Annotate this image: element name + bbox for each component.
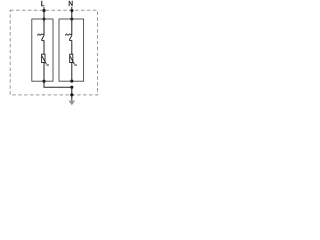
node L terminal on border (42, 9, 45, 12)
disconnector F1 lower jog (41, 39, 44, 41)
wire L lead-in (43, 7, 45, 19)
node PE terminal on border (70, 93, 73, 96)
wire PE drop (71, 87, 73, 100)
module box left (32, 19, 53, 81)
disconnector F2 squiggle (65, 34, 71, 36)
varistor RV2 foot (74, 64, 77, 66)
varistor RV2 body (70, 54, 73, 62)
varistor RV1 foot (46, 64, 49, 66)
disconnector F1 blade (42, 35, 44, 40)
terminal label N (69, 1, 73, 6)
disconnector F1 squiggle (38, 34, 44, 36)
varistor RV1 diagonal (42, 56, 47, 64)
wire N lead-in (71, 7, 73, 19)
wire PE bus (44, 86, 72, 88)
wire left branch middle (43, 40, 45, 54)
varistor RV2 diagonal (70, 56, 75, 64)
wire left stub to PE bus (43, 81, 45, 87)
ground arrow (69, 101, 76, 106)
module box right (59, 19, 84, 81)
enclosure dashed border (10, 10, 97, 95)
node L branch top (42, 17, 45, 20)
node left branch bottom (42, 80, 45, 83)
wire right branch middle (71, 40, 73, 54)
terminal label L (41, 1, 44, 7)
wire left branch upper (43, 19, 45, 35)
varistor RV1 body (42, 54, 45, 62)
wire right branch lower (71, 63, 73, 82)
node N branch top (70, 17, 73, 20)
node PE bus junction (70, 86, 73, 89)
disconnector F2 lower jog (69, 39, 72, 41)
node N terminal on border (70, 9, 73, 12)
disconnector F2 blade (69, 35, 71, 40)
wire right branch upper (71, 19, 73, 35)
wire left branch lower (43, 63, 45, 82)
node right branch bottom (70, 80, 73, 83)
